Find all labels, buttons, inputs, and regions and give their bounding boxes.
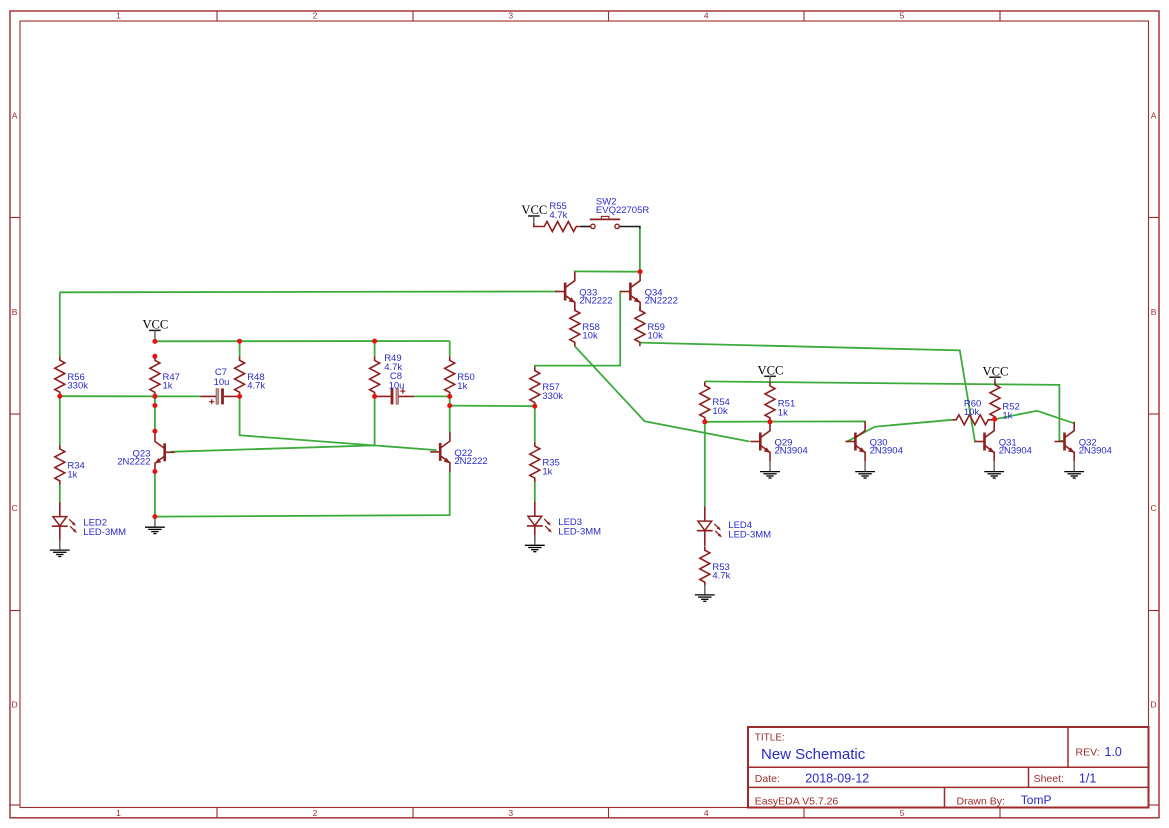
- svg-text:Date:: Date:: [755, 773, 780, 785]
- svg-text:4: 4: [704, 808, 709, 818]
- wire C8 left to Q23 base crossover: [171, 396, 375, 451]
- border row letters: [12, 110, 1157, 709]
- wire Q33 collector link: [574, 270, 576, 272]
- transistor Q34: [620, 272, 640, 311]
- svg-text:1k: 1k: [1002, 410, 1012, 421]
- wire R52 node to Q31 collector: [993, 419, 995, 421]
- wire R50 top stub: [449, 341, 451, 356]
- wire R60 right to R52 node: [992, 418, 994, 421]
- svg-text:10u: 10u: [389, 380, 405, 391]
- resistor R56: [55, 356, 65, 396]
- resistor R48: [235, 356, 245, 396]
- wire R49 top stub: [374, 341, 376, 356]
- wire R51 bottom to Q29 collector: [769, 421, 771, 424]
- resistor R34: [55, 445, 65, 485]
- resistor R51: [765, 382, 775, 422]
- svg-text:D: D: [12, 700, 18, 710]
- capacitor C8: [375, 388, 415, 404]
- svg-text:1: 1: [116, 10, 121, 20]
- power flag VCC for R47 rail: [149, 330, 161, 341]
- wire VCC rail R47-R50: [155, 340, 450, 342]
- resistor R58: [570, 306, 580, 346]
- node SW2 output node: [638, 269, 643, 274]
- svg-text:5: 5: [900, 808, 905, 818]
- svg-text:1k: 1k: [457, 381, 467, 392]
- wire Q23 emitter to ground node: [154, 472, 156, 517]
- wire Q30 base to R60 left: [847, 420, 953, 442]
- svg-text:REV:: REV:: [1076, 747, 1100, 759]
- svg-text:1.0: 1.0: [1105, 745, 1122, 759]
- svg-text:TITLE:: TITLE:: [755, 732, 785, 743]
- svg-text:TomP: TomP: [1021, 793, 1052, 807]
- svg-text:VCC: VCC: [142, 318, 168, 332]
- svg-text:Drawn By:: Drawn By:: [957, 795, 1005, 807]
- wire Q22 collector to R57 bottom: [450, 405, 535, 408]
- svg-text:2N3904: 2N3904: [999, 446, 1032, 457]
- wire R52 node to Q32 collector: [995, 411, 1075, 424]
- wire R48 top stub: [239, 341, 241, 356]
- resistor R59: [635, 306, 645, 346]
- resistor R57: [530, 367, 540, 407]
- wire emitter ground bus Q23-Q22: [155, 472, 450, 517]
- node Q23 collector node: [152, 429, 157, 434]
- wire R56 bottom to R34: [59, 396, 61, 445]
- svg-text:2N2222: 2N2222: [117, 456, 150, 467]
- wire SW2 to corner (black): [619, 227, 640, 229]
- svg-text:New Schematic: New Schematic: [761, 746, 866, 763]
- wire SW2 node to Q33 collector: [575, 270, 640, 273]
- resistor R52: [990, 381, 1000, 421]
- svg-text:LED-3MM: LED-3MM: [728, 530, 771, 541]
- svg-text:A: A: [12, 110, 18, 120]
- node R51 bottom junction: [768, 419, 773, 424]
- resistor R49: [370, 356, 380, 396]
- svg-text:B: B: [1151, 307, 1157, 317]
- svg-text:VCC: VCC: [983, 364, 1009, 378]
- svg-text:4.7k: 4.7k: [712, 571, 730, 582]
- node R52 bottom junction: [992, 417, 997, 422]
- svg-text:2: 2: [313, 10, 318, 20]
- svg-text:2N2222: 2N2222: [579, 296, 612, 307]
- svg-text:C: C: [12, 503, 18, 513]
- svg-text:5: 5: [900, 10, 905, 20]
- resistor R53: [700, 546, 710, 586]
- svg-text:VCC: VCC: [758, 364, 784, 378]
- wire R35 to LED3: [534, 482, 536, 502]
- svg-text:10k: 10k: [648, 331, 664, 342]
- svg-text:VCC: VCC: [521, 203, 547, 217]
- node R56 bottom junction: [57, 394, 62, 399]
- power flag VCC for R55: [528, 216, 540, 224]
- svg-text:2N3904: 2N3904: [775, 446, 808, 457]
- ground under Q32: [1064, 461, 1084, 478]
- power flag VCC for R52: [989, 377, 1001, 382]
- node C7-R48 junction: [237, 394, 242, 399]
- svg-text:LED-3MM: LED-3MM: [83, 527, 126, 538]
- resistor R50: [445, 356, 455, 396]
- title block frame: [748, 727, 1149, 808]
- svg-text:10k: 10k: [582, 331, 598, 342]
- svg-text:4.7k: 4.7k: [549, 210, 567, 221]
- wire Q34 base to R57 top: [535, 292, 622, 367]
- ground under LED3: [525, 535, 545, 552]
- wire R54 bottom to LED4: [704, 422, 706, 507]
- node Q23 emitter node: [152, 469, 157, 474]
- svg-text:10k: 10k: [712, 406, 728, 417]
- transistor Q30: [845, 422, 865, 461]
- wire R54-R51 bottom bus to Q30 collector: [705, 421, 865, 423]
- border column numbers: [116, 10, 905, 818]
- node R47 column joint: [152, 403, 157, 408]
- svg-text:D: D: [1151, 700, 1157, 710]
- wire R55 to SW2 (black): [580, 226, 591, 228]
- wire R50 bottom to Q22 collector: [449, 396, 451, 432]
- wire R59 bottom to Q31 base: [640, 343, 977, 442]
- transistor Q29: [750, 422, 770, 461]
- svg-text:1: 1: [116, 808, 121, 818]
- transistor Q23: [155, 433, 175, 472]
- power flag VCC for R51: [764, 376, 776, 382]
- wire R57 to R35: [534, 406, 536, 442]
- svg-text:330k: 330k: [67, 381, 88, 392]
- node Q23 ground node: [152, 514, 157, 519]
- wire Q33 base rail from R56 top: [60, 291, 558, 294]
- wire C8 right to R50 bottom: [414, 395, 450, 397]
- node R54 bottom junction: [702, 419, 707, 424]
- svg-text:10u: 10u: [214, 377, 230, 388]
- svg-text:1k: 1k: [67, 469, 77, 480]
- transistor Q31: [975, 422, 995, 461]
- svg-text:1k: 1k: [163, 381, 173, 392]
- transistor Q33: [555, 272, 575, 311]
- svg-text:2018-09-12: 2018-09-12: [805, 772, 869, 786]
- node R49 top junction: [372, 339, 377, 344]
- svg-text:1k: 1k: [542, 467, 552, 478]
- svg-text:2N3904: 2N3904: [1079, 446, 1112, 457]
- wire R56 top drop: [59, 292, 61, 356]
- svg-text:10k: 10k: [964, 407, 980, 418]
- svg-text:A: A: [1151, 110, 1157, 120]
- wire SW2 drop: [639, 228, 641, 271]
- svg-text:2N2222: 2N2222: [454, 456, 487, 467]
- svg-text:4.7k: 4.7k: [247, 381, 265, 392]
- svg-text:EasyEDA V5.7.26: EasyEDA V5.7.26: [755, 795, 839, 807]
- resistor R35: [530, 442, 540, 482]
- svg-text:2: 2: [313, 808, 318, 818]
- wire VCC to R55 (red elbow): [534, 224, 541, 227]
- LED LED3: [527, 502, 552, 541]
- svg-text:2N2222: 2N2222: [645, 296, 678, 307]
- ground under Q23: [145, 517, 165, 534]
- resistor R54: [700, 382, 710, 422]
- ground under Q31: [984, 461, 1004, 478]
- wire R56-R47-C7 bottom rail: [60, 395, 201, 397]
- transistor Q32: [1055, 422, 1075, 461]
- svg-text:1k: 1k: [778, 407, 788, 418]
- ground under LED2: [50, 540, 70, 557]
- LED LED2: [52, 502, 77, 542]
- node R48 top junction: [237, 339, 242, 344]
- node VCC-R47 junction: [152, 339, 157, 344]
- resistor R47: [150, 356, 160, 396]
- resistor R60: [952, 415, 992, 425]
- node Q22 collector junction: [447, 403, 452, 408]
- resistor R55: [540, 222, 580, 232]
- node R47 pin1: [152, 354, 157, 359]
- svg-text:B: B: [12, 307, 18, 317]
- transistor Q22: [430, 432, 450, 471]
- ground under Q30: [855, 461, 875, 478]
- svg-text:1/1: 1/1: [1079, 772, 1096, 786]
- svg-text:2N3904: 2N3904: [870, 446, 903, 457]
- node C8-R49 junction: [372, 394, 377, 399]
- ground under R53: [695, 585, 715, 602]
- node R57 bottom junction: [532, 404, 537, 409]
- ground under Q29: [760, 461, 780, 478]
- svg-text:3: 3: [508, 808, 513, 818]
- svg-text:LED-3MM: LED-3MM: [558, 527, 601, 538]
- capacitor C7: [200, 388, 240, 404]
- wire R54 top to Q32 base: [705, 381, 1063, 441]
- svg-text:4: 4: [704, 10, 709, 20]
- wire R34 to LED2: [59, 485, 61, 502]
- wire R47 bottom to Q23 collector: [154, 396, 156, 433]
- svg-text:C: C: [1151, 503, 1157, 513]
- svg-text:3: 3: [508, 10, 513, 20]
- wire C7 right to Q22 base crossover: [240, 396, 437, 450]
- node R50 bottom junction: [447, 394, 452, 399]
- LED LED4: [697, 506, 722, 546]
- svg-text:330k: 330k: [542, 391, 563, 402]
- node R47 bottom junction: [152, 394, 157, 399]
- wire R58 bottom to Q29 base: [575, 346, 750, 441]
- svg-text:EVQ22705R: EVQ22705R: [596, 205, 649, 216]
- pushbutton SW2: [590, 216, 620, 228]
- svg-text:Sheet:: Sheet:: [1034, 773, 1064, 785]
